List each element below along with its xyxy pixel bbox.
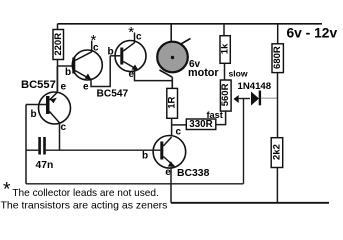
svg-text:330R: 330R (189, 119, 212, 130)
svg-text:47n: 47n (36, 160, 54, 171)
svg-text:e: e (61, 82, 67, 93)
node 220R / Q1 base / Q3 emitter (57, 66, 59, 91)
motor M1 6v (157, 24, 219, 89)
wire Q1 emitter to Q2 base (91, 56, 110, 87)
svg-text:The collector leads are not us: The collector leads are not used. (12, 188, 158, 199)
transistor Q3 BC557 (21, 66, 71, 150)
transistor Q2 BC547 (zener) (108, 24, 147, 80)
svg-text:c: c (61, 122, 67, 133)
wire Q2 emitter to 1R/motor node (135, 71, 173, 81)
svg-text:680R: 680R (272, 46, 283, 69)
capacitor C1 47n (26, 137, 160, 171)
svg-text:*: * (128, 24, 134, 41)
svg-text:1R: 1R (167, 96, 178, 108)
wire bottom mid horizontal (26, 183, 244, 185)
svg-text:motor: motor (188, 67, 219, 79)
svg-text:BC338: BC338 (177, 168, 210, 179)
wire top positive rail (58, 23, 323, 25)
resistor R3 1k (220, 24, 231, 80)
svg-text:slow: slow (229, 69, 248, 79)
svg-text:b: b (142, 151, 148, 162)
svg-text:b: b (108, 47, 114, 58)
svg-text:2k2: 2k2 (272, 144, 283, 160)
svg-text:The transistors are acting as: The transistors are acting as zeners (1, 200, 168, 212)
resistor R4 560R (216, 80, 231, 125)
svg-text:c: c (136, 32, 142, 43)
svg-text:BC557: BC557 (21, 79, 56, 91)
bottom rail (171, 202, 329, 204)
svg-text:*: * (91, 32, 97, 49)
svg-text:e: e (129, 69, 135, 80)
svg-text:b: b (31, 109, 37, 120)
svg-text:560R: 560R (220, 83, 231, 106)
svg-text:e: e (83, 82, 89, 93)
resistor R7 2k2 (271, 138, 283, 203)
wire BC557 base down (25, 105, 27, 184)
resistor R6 680R (272, 24, 283, 138)
svg-text:1k: 1k (220, 43, 231, 54)
wire vertical to diode junction (243, 98, 245, 184)
svg-text:*: * (3, 180, 11, 201)
diode D1 1N4148 (238, 81, 278, 106)
resistor R2 1R (167, 88, 178, 135)
svg-text:220R: 220R (53, 33, 64, 56)
resistor R1 220R (53, 24, 64, 66)
svg-text:1N4148: 1N4148 (238, 81, 272, 92)
selector arrow (234, 95, 239, 103)
svg-text:b: b (65, 67, 71, 78)
svg-text:BC547: BC547 (97, 89, 129, 100)
wire BC338 emitter down to rail (170, 168, 172, 203)
transistor Q4 BC338 (142, 126, 186, 178)
wire Q1 base lead (58, 65, 73, 67)
transistor Q1 BC547 (zener) (65, 32, 102, 93)
svg-text:c: c (176, 126, 182, 137)
resistor R5 330R (172, 119, 216, 130)
svg-text:6v - 12v: 6v - 12v (287, 26, 338, 41)
